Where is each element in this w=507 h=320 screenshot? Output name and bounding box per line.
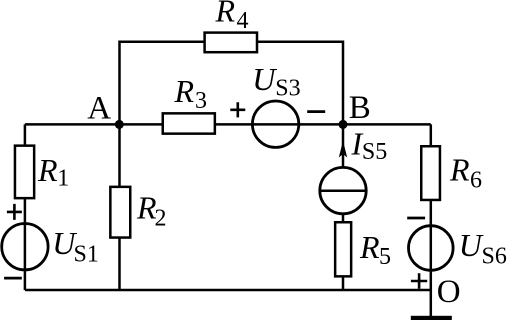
wire: right branch vertical through R6 and US6 (430, 124, 433, 290)
wire: R2 branch vertical from A to bottom rail (118, 124, 121, 290)
svg-text:S3: S3 (275, 76, 300, 102)
current source IS5 (320, 167, 366, 213)
svg-text:R: R (174, 73, 195, 109)
svg-text:1: 1 (57, 166, 69, 192)
svg-text:A: A (87, 91, 111, 127)
wire: left branch vertical through R1 and US1 (24, 124, 27, 290)
voltage source US3 (252, 61, 300, 147)
svg-text:5: 5 (379, 244, 391, 270)
wire: main horizontal node line through A, R3, US3, B (25, 123, 431, 126)
svg-text:R: R (215, 0, 236, 29)
ground (411, 316, 452, 320)
voltage source US6 (409, 226, 507, 271)
wire: B down to current source top (342, 124, 345, 168)
resistor R4 (205, 0, 257, 52)
svg-text:U: U (459, 227, 484, 263)
resistor R6 (421, 146, 482, 200)
minus sign of US1 (4, 277, 22, 280)
resistor R5 (335, 222, 391, 276)
resistor R2 (110, 187, 166, 238)
svg-text:6: 6 (470, 168, 482, 194)
plus sign of US3 (230, 102, 245, 117)
svg-text:R: R (449, 152, 470, 188)
svg-text:S1: S1 (74, 241, 99, 267)
minus sign of US6 (407, 217, 425, 220)
voltage source US1 (2, 224, 99, 270)
svg-text:2: 2 (155, 205, 167, 231)
svg-text:O: O (437, 274, 461, 310)
resistor R1 (15, 146, 69, 199)
label IS5 (351, 125, 388, 164)
wire: current source bottom through R5 to bottom rail (342, 214, 345, 291)
wire: ground stem below node O (430, 290, 433, 316)
arrow of IS5 pointing up (339, 141, 347, 158)
svg-text:R: R (359, 229, 380, 265)
plus sign of US6 (411, 273, 427, 288)
svg-text:4: 4 (237, 8, 249, 34)
svg-text:R: R (37, 152, 58, 188)
minus sign of US3 (307, 110, 325, 113)
resistor R3 (163, 73, 215, 134)
node A (87, 91, 124, 129)
svg-text:B: B (349, 90, 371, 126)
svg-text:3: 3 (195, 88, 207, 114)
node B (339, 90, 371, 129)
plus sign of US1 (7, 204, 22, 220)
svg-text:U: U (252, 61, 277, 97)
svg-text:S6: S6 (482, 244, 507, 270)
wire: top branch from A up, across top, down to B (120, 42, 344, 125)
wire: bottom rail (25, 289, 431, 292)
svg-text:S5: S5 (362, 139, 387, 165)
